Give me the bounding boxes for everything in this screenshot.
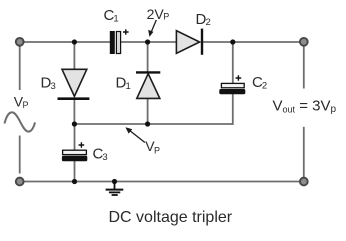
terminal: input bottom — [16, 178, 24, 186]
node: top junction 2Vp — [145, 39, 150, 44]
capacitor C2 — [219, 75, 245, 94]
wire: middle rail — [74, 123, 232, 125]
label Vout = 3Vp — [273, 97, 337, 115]
svg-text:C1: C1 — [104, 7, 119, 24]
label C1 — [104, 7, 119, 24]
wire: top rail segment D2 to right terminal — [203, 41, 300, 43]
label D1 — [116, 74, 131, 92]
label Vp source — [14, 93, 29, 110]
source sine symbol — [5, 112, 36, 131]
wire: left source lead lower — [19, 136, 21, 174]
label D3 — [41, 74, 56, 92]
svg-text:VP: VP — [14, 93, 29, 110]
label C2 — [252, 74, 267, 91]
node: top junction at C2 — [230, 39, 235, 44]
wire: D3 branch vertical — [73, 42, 75, 124]
node: bottom junction at C3 — [72, 179, 77, 184]
diode D3 — [58, 69, 90, 98]
wire: top rail segment left — [24, 41, 110, 43]
wire: top rail segment C1 to D2 — [121, 41, 177, 43]
svg-text:C3: C3 — [93, 145, 108, 163]
wire: bottom rail — [24, 181, 300, 183]
wire: C2 branch vertical — [232, 42, 234, 125]
diode D1 — [136, 72, 160, 98]
label 2Vp with arrow — [147, 6, 170, 37]
svg-text:Vout = 3Vp: Vout = 3Vp — [273, 97, 337, 115]
svg-text:C2: C2 — [252, 74, 267, 91]
svg-text:DC voltage tripler: DC voltage tripler — [109, 209, 233, 226]
svg-text:D3: D3 — [41, 74, 56, 92]
svg-text:D2: D2 — [196, 11, 211, 28]
node: middle junction at D1 — [145, 121, 150, 126]
capacitor C1 — [110, 29, 129, 54]
ground — [106, 182, 124, 196]
label Vp at middle rail with arrow — [125, 127, 160, 156]
terminal: input top — [16, 38, 24, 46]
label D2 — [196, 11, 211, 28]
svg-text:VP: VP — [145, 138, 160, 156]
wire: right output lead upper — [303, 47, 305, 89]
terminal: output bottom — [300, 178, 308, 186]
terminal: output top — [300, 38, 308, 46]
wire: left source lead upper — [19, 47, 21, 91]
svg-text:D1: D1 — [116, 74, 131, 92]
wire: right output lead lower — [303, 127, 305, 177]
node: bottom junction at ground — [112, 179, 117, 184]
wire: C3 branch vertical — [74, 124, 76, 182]
capacitor C3 — [62, 142, 87, 161]
caption: DC voltage tripler — [109, 209, 233, 226]
diode D2 — [176, 29, 202, 55]
label C3 — [93, 145, 108, 163]
wire: D1 branch vertical — [147, 42, 149, 124]
svg-text:2VP: 2VP — [147, 6, 170, 22]
node: top junction at D3 — [72, 39, 77, 44]
node: middle junction at D3 — [72, 121, 77, 126]
